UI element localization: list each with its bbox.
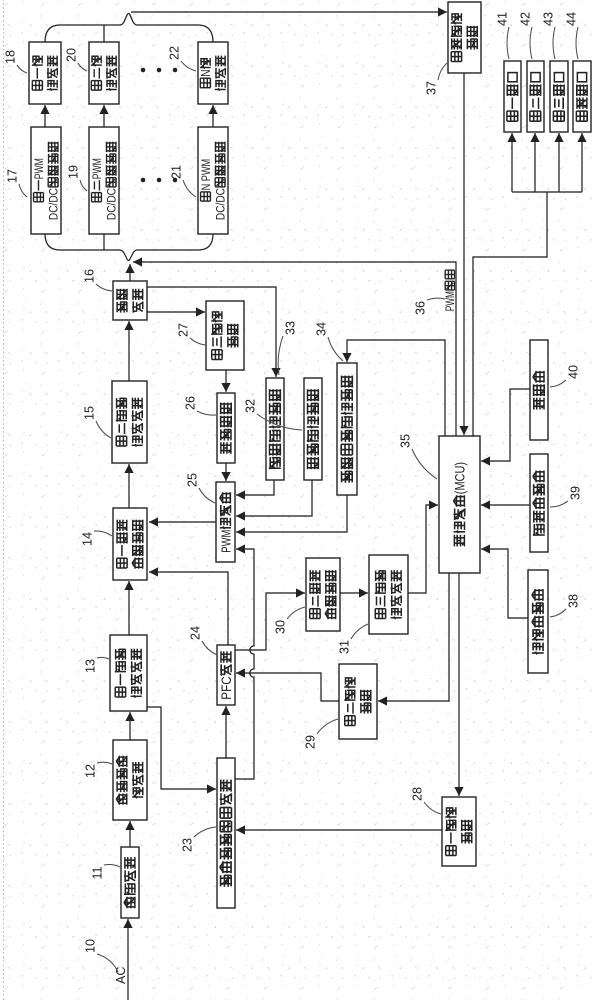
ref 15 bbox=[82, 406, 111, 438]
svg-text:PWM: PWM bbox=[90, 158, 104, 179]
unit 24 PFC unit PFC单元 bbox=[217, 645, 235, 705]
unit 13 first rectifier-filter 第一整流滤波单元 bbox=[110, 635, 147, 711]
svg-text:N PWM: N PWM bbox=[199, 159, 213, 191]
svg-text:34: 34 bbox=[314, 322, 328, 336]
unit 29 second sampling circuit 第二取样电路 bbox=[339, 664, 377, 739]
svg-text:42: 42 bbox=[518, 12, 532, 26]
svg-text:10: 10 bbox=[83, 939, 97, 953]
ref 42 bbox=[518, 12, 532, 59]
wire 39 to MCU bbox=[481, 500, 530, 509]
wire 11 to 12 bbox=[125, 821, 134, 847]
wire bus to interface 41 bbox=[507, 133, 516, 192]
label AC input bbox=[114, 967, 128, 984]
svg-text:43: 43 bbox=[541, 12, 555, 26]
wire 12 to 13 bbox=[125, 712, 134, 740]
ref 27 bbox=[176, 323, 205, 345]
svg-text:39: 39 bbox=[568, 486, 582, 500]
svg-text:41: 41 bbox=[495, 12, 509, 26]
wire 13 to 14 bbox=[124, 581, 133, 635]
svg-text:16: 16 bbox=[82, 269, 96, 283]
ref 13 bbox=[83, 657, 109, 673]
label PWM regulation 36 PWM调节 bbox=[444, 270, 457, 311]
unit 15 second rectifier-filter 第二整流滤波单元 bbox=[112, 381, 147, 463]
svg-text:14: 14 bbox=[80, 532, 94, 546]
ref 17 bbox=[5, 169, 27, 197]
unit 38 light sensor 光敏传感器 bbox=[528, 570, 548, 673]
ref 33 bbox=[278, 321, 297, 375]
wire interface bus connector bbox=[512, 191, 582, 193]
wire 14 to 15 bbox=[124, 464, 133, 508]
unit 37 fourth sampling circuit 第四取样电路 bbox=[448, 2, 481, 73]
wire 16 to 27 bbox=[147, 307, 205, 316]
svg-text:32: 32 bbox=[243, 399, 257, 413]
unit 26 voltage-stabilizing loop 稳压环路 bbox=[217, 393, 235, 463]
ref 14 bbox=[80, 531, 112, 546]
svg-text:PWM: PWM bbox=[32, 158, 46, 179]
svg-text:22: 22 bbox=[167, 46, 181, 60]
unit 32 current-limit protection 限流保护电路 bbox=[304, 378, 322, 480]
ref 18 bbox=[3, 50, 27, 73]
wire AC input into unit 11 bbox=[123, 919, 132, 1000]
ref 16 bbox=[82, 269, 112, 291]
ref 20 bbox=[64, 48, 87, 71]
wire 24 to 14 bbox=[149, 567, 228, 645]
svg-text:33: 33 bbox=[283, 321, 297, 335]
unit 39 temperature sensor 温度传感器 bbox=[530, 454, 548, 552]
wire MCU PWM regulation bus to brace junction bbox=[133, 257, 456, 436]
wire brace to unit 37 (fourth sampling) bbox=[131, 7, 447, 16]
unit 25 PWM controller PWM控制器 bbox=[216, 482, 235, 562]
unit 34 output overvoltage protection 输出过压保护电路 bbox=[337, 363, 357, 495]
unit 11 lightning-protection 防雷单元 bbox=[121, 847, 139, 918]
svg-text:13: 13 bbox=[83, 659, 97, 673]
svg-text:(MCU): (MCU) bbox=[452, 462, 467, 494]
svg-text:44: 44 bbox=[564, 12, 578, 26]
wire MCU to 29 bbox=[378, 573, 449, 706]
unit 33 short-circuit protection 短路保护电路 bbox=[266, 378, 284, 480]
wire 31 to MCU bbox=[408, 500, 438, 593]
svg-text:20: 20 bbox=[64, 48, 78, 62]
wire 21 to 22 bbox=[208, 105, 217, 127]
wire 27 to 26 bbox=[221, 370, 230, 392]
unit 18 first light-emitting unit 第一发光单元 bbox=[29, 42, 61, 104]
wire 34 to 25 bbox=[236, 495, 347, 537]
unit 41 first interface 第一接口 bbox=[504, 61, 521, 132]
ref 25 bbox=[185, 473, 215, 503]
brace merging light-emitting unit outputs (top of page) bbox=[45, 14, 213, 43]
svg-text:24: 24 bbox=[188, 626, 202, 640]
ref 36 bbox=[413, 298, 445, 315]
unit 27 third sampling circuit 第三取样电路 bbox=[206, 301, 244, 370]
wire 32 to 25 bbox=[236, 480, 312, 521]
svg-text:29: 29 bbox=[303, 735, 317, 749]
svg-text:35: 35 bbox=[398, 434, 412, 448]
scan artifact dotted edge line bbox=[3, 0, 5, 1000]
unit 21 Nth PWM DC/DC converter bbox=[198, 127, 228, 234]
unit 19 second PWM DC/DC converter bbox=[89, 127, 119, 234]
wire 24 to 30 bbox=[235, 588, 305, 650]
svg-text:15: 15 bbox=[82, 406, 96, 420]
ref 31 bbox=[337, 624, 368, 654]
wire 16 to 33 bbox=[147, 287, 281, 377]
unit 23 input voltage regulating unit 输入电压调节单元 bbox=[217, 758, 235, 908]
svg-text:18: 18 bbox=[3, 50, 17, 64]
svg-text:25: 25 bbox=[185, 473, 199, 487]
svg-text:23: 23 bbox=[180, 838, 194, 852]
unit 12 anti-EMI 防电磁干扰单元 bbox=[113, 740, 147, 820]
svg-text:36: 36 bbox=[413, 301, 427, 315]
wire 33 to 25 bbox=[236, 480, 274, 500]
ref 22 bbox=[167, 46, 196, 71]
wire 25 to 14 bbox=[149, 517, 216, 526]
ref 40 bbox=[550, 365, 580, 387]
wire MCU to interface bus bbox=[473, 192, 547, 436]
ref 44 bbox=[564, 12, 578, 59]
ref 41 bbox=[495, 12, 509, 59]
wire bus to interface 44 bbox=[577, 133, 586, 192]
wire 28 to 23 bbox=[236, 825, 442, 834]
wire 13 tap to 23 bbox=[147, 707, 216, 794]
svg-text:19: 19 bbox=[66, 165, 80, 179]
ellipsis dots between unit 19 and 21 bbox=[141, 178, 178, 183]
svg-text:DC/DC: DC/DC bbox=[105, 188, 119, 220]
svg-text:12: 12 bbox=[83, 764, 97, 778]
svg-text:DC/DC: DC/DC bbox=[47, 188, 61, 220]
svg-text:27: 27 bbox=[176, 323, 190, 337]
ref 28 bbox=[410, 787, 441, 814]
wire 40 to MCU bbox=[481, 389, 530, 466]
wire 19 to 20 bbox=[99, 105, 108, 127]
wire 29 to 24 bbox=[236, 668, 339, 701]
wire bus to interface 43 bbox=[554, 133, 563, 192]
unit 28 first sampling circuit 第一取样电路 bbox=[442, 797, 476, 866]
unit 16 output unit 输出单元 bbox=[113, 281, 147, 320]
unit 22 Nth light-emitting unit 第N发光单元 bbox=[198, 42, 228, 104]
wire 16 output to brace junction bbox=[125, 264, 134, 281]
ref 23 bbox=[180, 827, 216, 852]
wire bus to interface 42 bbox=[530, 133, 539, 192]
svg-text:40: 40 bbox=[566, 365, 580, 379]
ref 24 bbox=[188, 626, 217, 655]
unit 31 third rectifier-filter 第三整流滤波单元 bbox=[369, 555, 408, 634]
wire 23 to 24 (PFC) bbox=[221, 706, 230, 758]
wire 15 to 16 bbox=[124, 321, 133, 381]
ref 12 bbox=[83, 762, 112, 778]
ref 11 bbox=[90, 864, 120, 879]
unit 40 timer 计时器 bbox=[530, 340, 548, 440]
ref 29 bbox=[303, 719, 338, 749]
unit 17 first PWM DC/DC converter bbox=[31, 127, 61, 234]
ref 43 bbox=[541, 12, 555, 59]
unit 35 microcontroller MCU 微控制器（MCU） bbox=[439, 436, 480, 573]
wire 23 to 25 (with hops) bbox=[235, 544, 254, 779]
svg-text:PWM: PWM bbox=[218, 530, 233, 553]
ref 21 bbox=[169, 165, 196, 197]
svg-text:26: 26 bbox=[183, 396, 197, 410]
ref 26 bbox=[183, 396, 216, 415]
svg-text:PWM: PWM bbox=[444, 291, 457, 311]
wire 26 to 25 bbox=[221, 463, 230, 481]
svg-text:17: 17 bbox=[5, 169, 19, 183]
unit 20 second light-emitting unit 第二发光单元 bbox=[89, 42, 119, 104]
svg-text:28: 28 bbox=[410, 787, 424, 801]
svg-text:37: 37 bbox=[424, 81, 438, 95]
brace merging PWM DC/DC converter inputs bbox=[45, 234, 213, 261]
unit 14 first power conversion 第一功率变换电路 bbox=[113, 508, 147, 580]
svg-text:30: 30 bbox=[273, 620, 287, 634]
svg-text:N: N bbox=[199, 69, 213, 76]
svg-text:31: 31 bbox=[337, 640, 351, 654]
unit 30 second power conversion 第二功率变换电路 bbox=[306, 558, 340, 631]
wire 17 to 18 bbox=[40, 105, 49, 127]
unit 42 second interface 第二接口 bbox=[527, 61, 544, 132]
unit 44 fourth interface 第四接口 bbox=[573, 61, 591, 132]
ref 37 bbox=[424, 63, 447, 95]
unit 43 third interface 第三接口 bbox=[550, 61, 568, 132]
wire 30 to 31 bbox=[340, 588, 368, 597]
ref 19 bbox=[66, 165, 87, 191]
svg-text:38: 38 bbox=[566, 594, 580, 608]
wire MCU to unit 34 bbox=[342, 340, 445, 436]
ref 38 bbox=[550, 594, 580, 617]
ref 32 bbox=[243, 399, 302, 430]
ref 30 bbox=[273, 607, 305, 634]
wire MCU to 28 bbox=[454, 573, 463, 796]
svg-text:PFC: PFC bbox=[219, 676, 234, 700]
svg-text:DC/DC: DC/DC bbox=[214, 188, 228, 220]
ref 39 bbox=[550, 486, 582, 507]
svg-text:11: 11 bbox=[90, 866, 104, 879]
ellipsis dots between unit 20 and 22 bbox=[141, 68, 178, 73]
wire 38 to MCU bbox=[481, 544, 528, 618]
ref 35 bbox=[398, 434, 437, 479]
ref 34 bbox=[314, 322, 343, 361]
ref 10 bbox=[83, 939, 118, 972]
svg-text:21: 21 bbox=[169, 165, 183, 179]
wire 37 to MCU bbox=[459, 73, 468, 435]
